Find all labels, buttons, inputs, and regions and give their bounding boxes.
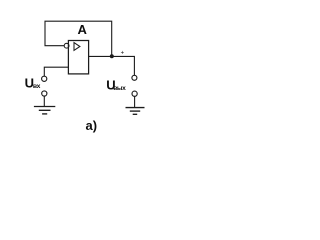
terminal input bottom circle: [42, 91, 47, 96]
wire feedback loop: output junction up, across top, down to inverting input bubble: [45, 21, 112, 56]
svg-text:а): а): [86, 118, 98, 133]
ground left: [34, 107, 55, 114]
terminal output bottom circle: [132, 91, 137, 96]
amplifier triangle symbol: [74, 43, 80, 51]
wire output: from amp right edge to output terminal: [89, 56, 135, 75]
node junction (feedback tap on output): [110, 54, 114, 58]
amplifier U1 box: [68, 41, 88, 74]
svg-text:+: +: [121, 51, 125, 57]
wire: input bottom terminal to ground: [43, 96, 45, 106]
terminal input top circle: [42, 76, 47, 81]
svg-text:A: A: [78, 22, 88, 37]
svg-text:вых: вых: [113, 85, 126, 92]
svg-text:вх: вх: [33, 83, 41, 90]
wire input: from Uvx terminal up and right to amp lower-left input: [44, 67, 68, 76]
wire: output bottom terminal to ground: [134, 96, 136, 107]
ground right: [126, 108, 145, 115]
inverting input bubble: [64, 43, 69, 48]
terminal output top circle: [132, 75, 137, 80]
